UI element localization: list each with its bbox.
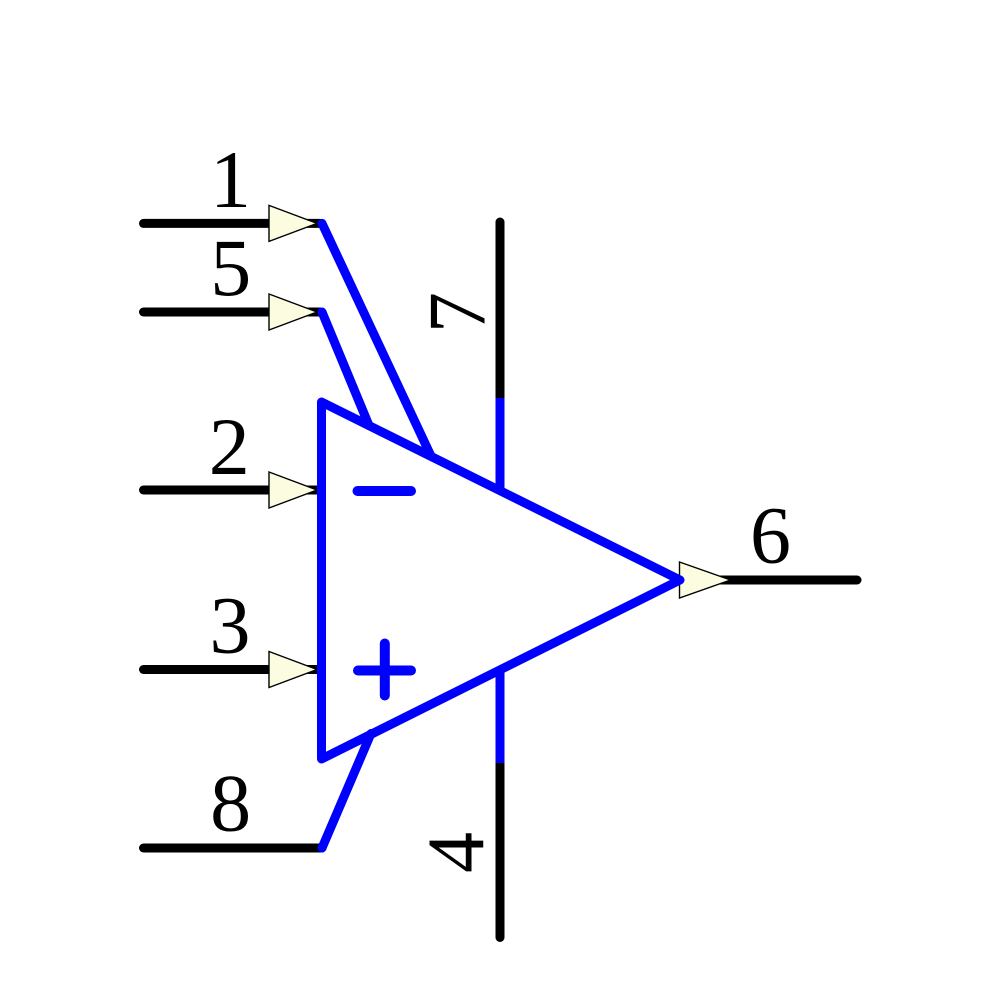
svg-text:7: 7 — [412, 292, 503, 333]
pin 7 stub (blue, V+ into top edge) — [496, 398, 505, 490]
svg-text:2: 2 — [209, 401, 250, 492]
wire pin 4 (vertical black) — [496, 763, 505, 938]
pin 8 lead (blue diagonal to bottom edge) — [322, 734, 371, 849]
wire pin 2 — [144, 486, 321, 495]
svg-text:4: 4 — [410, 832, 501, 873]
pin 5 lead (blue diagonal to top edge) — [322, 312, 369, 426]
op-amp inverting input marker (-) — [358, 486, 412, 496]
pin 2 arrowhead — [269, 472, 317, 508]
wire pin 1 — [144, 219, 321, 228]
svg-text:1: 1 — [210, 134, 251, 225]
pin 4 stub (blue, V- into bottom edge) — [496, 670, 505, 763]
svg-text:8: 8 — [210, 758, 251, 849]
wire pin 6 (output) — [683, 576, 857, 585]
wire pin 8 — [144, 844, 323, 853]
pin 1 lead (blue diagonal to top edge) — [322, 223, 431, 456]
svg-text:5: 5 — [210, 222, 251, 313]
op-amp non-inverting input marker (+) — [358, 644, 411, 696]
svg-text:3: 3 — [210, 580, 251, 671]
pin 5 arrowhead — [269, 294, 317, 330]
wire pin 3 — [144, 665, 321, 674]
op-amp U1 body (triangle) — [322, 402, 681, 759]
svg-text:6: 6 — [750, 490, 791, 581]
pin 1 arrowhead — [269, 205, 317, 241]
wire pin 7 (vertical black) — [496, 222, 505, 398]
pin 3 arrowhead — [269, 652, 317, 688]
pin 6 arrowhead (output) — [680, 562, 731, 598]
wire pin 5 — [144, 308, 321, 317]
